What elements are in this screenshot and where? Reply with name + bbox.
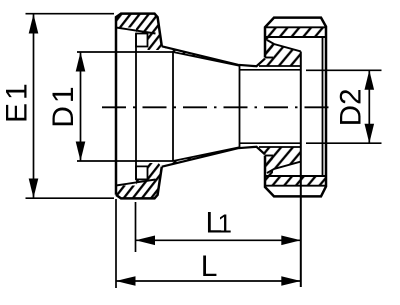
nut wall hatch top xyxy=(265,37,273,58)
svg-text:L: L xyxy=(201,250,218,283)
cone outer line top xyxy=(162,46,265,66)
nut band line bottom outer xyxy=(265,185,326,187)
nut lip bottom xyxy=(265,155,273,157)
bead bottom top edge xyxy=(259,146,301,148)
bead hatch top xyxy=(259,40,301,66)
cone outer line bottom xyxy=(162,147,265,167)
nut band line top outer xyxy=(265,26,326,28)
left ferrule outline top xyxy=(116,14,162,195)
cone wall hatch top xyxy=(162,46,239,65)
gasket groove square bottom xyxy=(136,166,148,179)
dimension L arrow right xyxy=(281,276,301,286)
dimension L line xyxy=(116,280,301,282)
cone wall hatch bottom xyxy=(162,148,239,167)
dimension L arrow left xyxy=(116,276,136,286)
gasket groove square top xyxy=(136,34,148,47)
svg-text:E1: E1 xyxy=(1,80,34,123)
dimension D1 arrow up xyxy=(76,52,86,72)
dimension D1 arrow down xyxy=(76,142,86,162)
dimension E1 arrow up xyxy=(29,14,39,34)
dimension E1 arrow down xyxy=(29,179,39,199)
dimension D2 line xyxy=(368,70,370,143)
groove circle edge vertical xyxy=(135,34,137,180)
bore edge vertical at D2 start xyxy=(239,66,241,147)
nut band line bottom inner xyxy=(266,175,326,177)
svg-text:1: 1 xyxy=(218,208,232,238)
bead bottom edge xyxy=(267,162,301,173)
dimension E1 extension bottom xyxy=(26,197,115,199)
dimension D2 extension top xyxy=(306,69,382,71)
dimension D2 arrow up xyxy=(365,70,375,90)
svg-text:D1: D1 xyxy=(47,83,80,127)
flange inner slope top xyxy=(116,28,156,34)
dimension L1 arrow left xyxy=(136,236,156,246)
bead hatch bottom xyxy=(259,147,301,173)
centerline xyxy=(102,106,332,108)
dimension L1 arrow right xyxy=(281,236,301,246)
male end edge and L extension vertical xyxy=(300,52,302,288)
dimension E1 line xyxy=(33,14,35,198)
nut wall hatch bottom xyxy=(265,156,273,177)
dimension D1 line xyxy=(80,52,82,161)
svg-text:D2: D2 xyxy=(335,88,368,126)
nut band hatch bottom xyxy=(265,176,326,186)
dimension D2 arrow down xyxy=(365,124,375,144)
bore line D2 top xyxy=(240,69,301,71)
dimension D2 extension bottom xyxy=(306,142,382,144)
left ferrule flange hatch bottom xyxy=(116,163,162,199)
dimension L1 left extension xyxy=(135,202,137,252)
bead top bottom edge xyxy=(259,65,301,67)
flange inner slope bottom xyxy=(116,180,156,186)
nut band line top inner xyxy=(266,36,326,38)
bore line D1 top with D1 extension xyxy=(77,51,173,53)
bore line D1 bottom with D1 extension xyxy=(77,160,173,162)
cone inner line bottom xyxy=(173,147,240,161)
bead top edge xyxy=(267,40,301,51)
nut lip top xyxy=(265,57,273,59)
cone inner line top xyxy=(173,52,240,66)
left ferrule outline bottom xyxy=(116,167,162,199)
nut hole inner edge vertical xyxy=(322,37,324,176)
dimension L left extension xyxy=(115,199,117,288)
bore line D2 bottom xyxy=(240,142,301,144)
nut outline xyxy=(265,18,326,197)
left ferrule flange hatch top xyxy=(116,14,162,50)
bore step edge vertical at cone start xyxy=(172,52,174,161)
dimension E1 extension top xyxy=(26,13,115,15)
nut band hatch top xyxy=(265,27,326,37)
dimension L1 line xyxy=(136,239,301,241)
